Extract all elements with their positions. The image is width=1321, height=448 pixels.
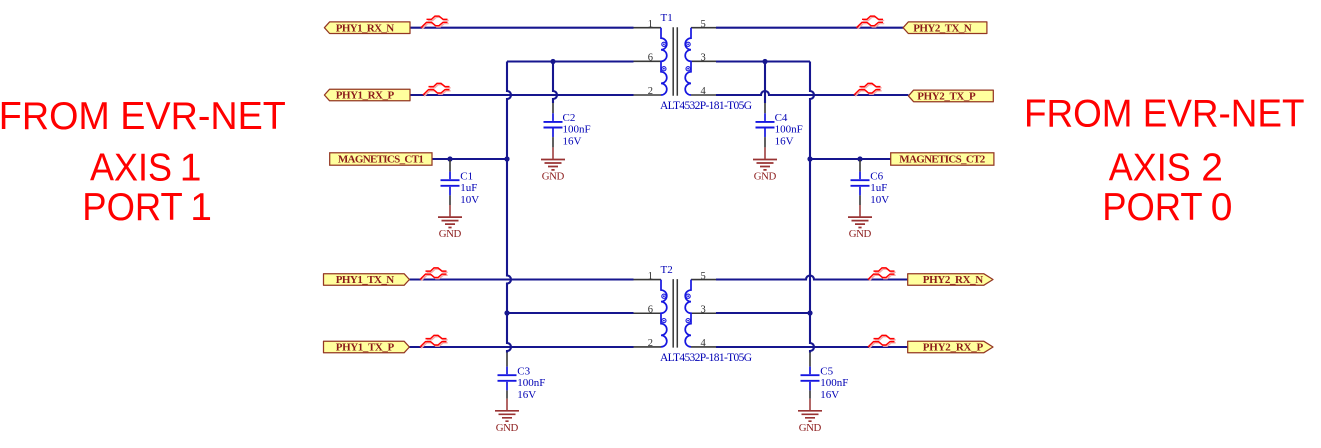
ground below C3: [495, 399, 519, 434]
wire T1 pin 6 row: [507, 60, 634, 62]
svg-text:T2: T2: [661, 264, 673, 276]
differential pair directive at PHY2_RX_P: [868, 335, 896, 348]
T2 secondary winding: [685, 280, 691, 347]
svg-text:1: 1: [180, 146, 202, 189]
differential pair directive at PHY2_TX_N: [857, 16, 885, 29]
port PHY2_TX_N: [903, 22, 987, 34]
svg-text:PORT: PORT: [1102, 186, 1203, 229]
svg-text:2: 2: [1201, 146, 1223, 189]
svg-text:100nF: 100nF: [775, 124, 803, 136]
wire T2 pin 4 to PHY2_RX_P: [716, 346, 908, 348]
wire T2 pin 6 row: [507, 312, 634, 314]
port PHY2_RX_N: [908, 274, 993, 286]
port PHY2_TX_P: [908, 90, 993, 102]
T2 core: [673, 279, 677, 348]
svg-text:C3: C3: [517, 365, 530, 377]
T1 pin stubs right (pins 5,3,4): [691, 28, 716, 95]
svg-text:C4: C4: [775, 112, 788, 124]
wire T2 pin 3 row: [716, 312, 810, 314]
annotation text left: FROM EVR-NET AXIS 1 PORT 1: [0, 95, 286, 229]
wire C2 drop: [553, 62, 557, 104]
svg-text:5: 5: [701, 271, 706, 282]
T2 polarity dots: [662, 294, 690, 323]
wire PHY1_RX_N to T1 pin 1: [410, 27, 634, 29]
differential pair directive at PHY1_RX_P: [423, 83, 451, 96]
junction CT1 / C1: [447, 156, 452, 161]
svg-text:3: 3: [701, 53, 706, 64]
svg-text:C2: C2: [563, 112, 576, 124]
svg-text:10V: 10V: [460, 194, 479, 206]
junction T2 pin6 / center-tap: [504, 310, 509, 315]
transformer T2 ALT4532P-181-T05G: [634, 271, 717, 349]
T1 secondary winding: [685, 28, 691, 95]
T2 pin stubs right (pins 5,3,4): [691, 280, 716, 347]
svg-text:100nF: 100nF: [563, 124, 591, 136]
svg-text:PHY1_TX_P: PHY1_TX_P: [336, 342, 395, 354]
svg-text:100nF: 100nF: [820, 377, 848, 389]
junction T1 pin3 / C4: [762, 59, 767, 64]
junction CT2 / center-tap vertical: [807, 156, 812, 161]
junction CT2 / C6: [857, 156, 862, 161]
svg-text:10V: 10V: [870, 194, 889, 206]
capacitor C2: [544, 103, 591, 148]
svg-text:1: 1: [648, 19, 653, 30]
junction CT1 / center-tap vertical: [504, 156, 509, 161]
wire MAGNETICS_CT2 row: [810, 158, 891, 160]
svg-text:1: 1: [190, 186, 212, 229]
svg-text:16V: 16V: [820, 389, 839, 401]
capacitor C5: [801, 353, 849, 401]
ground below C5: [798, 399, 822, 434]
svg-text:1: 1: [648, 271, 653, 282]
differential pair directive at PHY1_RX_N: [421, 16, 449, 29]
svg-text:PHY2_RX_N: PHY2_RX_N: [923, 274, 984, 286]
svg-text:C6: C6: [870, 170, 883, 182]
wire T1 pin 3 row: [716, 60, 810, 62]
wire C4 drop: [764, 62, 766, 104]
svg-text:PHY2_RX_P: PHY2_RX_P: [923, 342, 984, 354]
differential pair directive at PHY2_RX_N: [868, 268, 896, 281]
port PHY1_TX_N: [324, 274, 410, 286]
svg-text:1uF: 1uF: [460, 182, 477, 194]
svg-text:3: 3: [701, 304, 706, 315]
ground below C1: [438, 205, 462, 240]
annotation text right: FROM EVR-NET AXIS 2 PORT 0: [1024, 92, 1305, 229]
svg-text:2: 2: [648, 86, 653, 97]
differential pair directive at PHY1_TX_P: [420, 335, 448, 348]
svg-text:PHY1_RX_P: PHY1_RX_P: [336, 90, 395, 102]
svg-text:0: 0: [1211, 186, 1233, 229]
ground below C6: [848, 205, 872, 240]
T1 pin stubs left (pins 1,6,2): [634, 28, 662, 95]
net label MAGNETICS_CT1: [330, 153, 432, 166]
capacitor C1: [441, 160, 480, 206]
T1 primary winding: [661, 28, 667, 95]
port PHY1_TX_P: [324, 341, 410, 353]
wire MAGNETICS_CT1 row: [432, 158, 507, 160]
svg-text:PHY2_TX_P: PHY2_TX_P: [917, 91, 976, 103]
junction T1 pin6 / C2: [550, 59, 555, 64]
transformer T1 ALT4532P-181-T05G: [634, 19, 717, 97]
svg-text:MAGNETICS_CT2: MAGNETICS_CT2: [899, 153, 986, 165]
svg-text:PORT: PORT: [82, 186, 183, 229]
wire center-tap vertical left: [507, 62, 511, 353]
T1 pin numbers: [648, 19, 707, 97]
wire PHY1_TX_N to T2 pin 1: [409, 278, 633, 280]
svg-text:ALT4532P-181-T05G: ALT4532P-181-T05G: [660, 100, 752, 112]
wire center-tap vertical right: [810, 62, 814, 353]
net label MAGNETICS_CT2: [891, 153, 994, 166]
T1 polarity dots: [662, 42, 690, 71]
svg-text:4: 4: [701, 86, 707, 97]
svg-text:16V: 16V: [517, 389, 536, 401]
svg-text:FROM EVR-NET: FROM EVR-NET: [0, 95, 286, 138]
svg-text:1uF: 1uF: [870, 182, 887, 194]
differential pair directive at PHY2_TX_P: [854, 83, 882, 96]
svg-text:PHY2_TX_N: PHY2_TX_N: [913, 22, 972, 34]
svg-text:ALT4532P-181-T05G: ALT4532P-181-T05G: [660, 352, 752, 364]
T1 core: [673, 27, 677, 96]
svg-text:PHY1_TX_N: PHY1_TX_N: [336, 274, 395, 286]
port PHY1_RX_P: [324, 89, 410, 101]
svg-text:16V: 16V: [775, 136, 794, 148]
T2 pin numbers: [648, 271, 707, 349]
svg-text:5: 5: [701, 19, 706, 30]
port PHY1_RX_N: [324, 22, 410, 34]
svg-text:PHY1_RX_N: PHY1_RX_N: [336, 22, 395, 34]
svg-text:MAGNETICS_CT1: MAGNETICS_CT1: [338, 153, 424, 165]
svg-text:AXIS: AXIS: [90, 146, 172, 189]
svg-text:C5: C5: [820, 365, 833, 377]
svg-text:6: 6: [648, 304, 653, 315]
capacitor C3: [498, 353, 546, 401]
wire T2 pin 5 to PHY2_RX_N with hop over center-tap line: [716, 276, 908, 280]
wire PHY1_TX_P to T2 pin 2: [409, 346, 633, 348]
svg-text:AXIS: AXIS: [1109, 146, 1191, 189]
ground below C2: [541, 147, 565, 182]
svg-text:FROM EVR-NET: FROM EVR-NET: [1024, 92, 1305, 135]
wire T1 pin 4 to PHY2_TX_P with hop over C4 drop: [716, 91, 908, 95]
svg-text:100nF: 100nF: [517, 377, 545, 389]
svg-text:T1: T1: [661, 12, 673, 24]
svg-text:C1: C1: [460, 170, 473, 182]
wire T1 pin 5 to PHY2_TX_N: [716, 27, 903, 29]
capacitor C6: [851, 160, 890, 206]
port PHY2_RX_P: [908, 341, 993, 353]
T2 pin stubs left (pins 1,6,2): [634, 280, 662, 347]
differential pair directive at PHY1_TX_N: [420, 268, 448, 281]
svg-text:4: 4: [701, 338, 707, 349]
capacitor C4: [756, 103, 803, 148]
ground below C4: [753, 147, 777, 182]
svg-text:6: 6: [648, 53, 653, 64]
T2 primary winding: [661, 280, 667, 347]
junction T2 pin3 / center-tap: [807, 310, 812, 315]
svg-text:16V: 16V: [563, 136, 582, 148]
svg-text:2: 2: [648, 338, 653, 349]
wire PHY1_RX_P to T1 pin 2: [410, 94, 634, 96]
